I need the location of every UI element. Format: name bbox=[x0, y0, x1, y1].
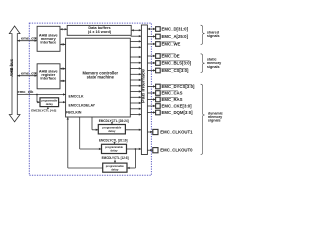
brace dynamic memory signals bbox=[201, 84, 205, 154]
wire emc_clk / EMCCLK bbox=[17, 94, 65, 96]
EMC module dashed boundary bbox=[29, 23, 151, 175]
svg-text:delay: delay bbox=[108, 129, 116, 133]
wire state machine to delay 1 bbox=[91, 117, 93, 130]
svg-text:EMCCLK: EMCCLK bbox=[69, 94, 84, 98]
wire register interface to state machine 1 bbox=[60, 68, 66, 70]
svg-text:EMCDLYCTL [4:0]: EMCDLYCTL [4:0] bbox=[31, 109, 56, 113]
wire pad interface to EMC_CLKOUT1 pad bbox=[147, 131, 152, 133]
svg-text:delay: delay bbox=[46, 102, 54, 106]
pad and signal EMC_OE bbox=[147, 55, 155, 57]
svg-text:state machine: state machine bbox=[87, 74, 115, 79]
pad and signal EMC_WE bbox=[147, 43, 155, 45]
svg-text:signals: signals bbox=[207, 34, 220, 38]
pad and signal EMC_RAS bbox=[147, 99, 155, 101]
svg-text:EMC_DYCS[3:0]: EMC_DYCS[3:0] bbox=[162, 84, 196, 89]
svg-text:EMC_DQM[3:0]: EMC_DQM[3:0] bbox=[162, 110, 194, 115]
svg-text:AHB bus: AHB bus bbox=[9, 58, 14, 76]
pad and signal EMC_CKE[3:0] bbox=[147, 105, 155, 107]
svg-text:EMC_CS[3:0]: EMC_CS[3:0] bbox=[162, 68, 190, 73]
svg-text:interface: interface bbox=[40, 76, 56, 80]
svg-text:signals: signals bbox=[208, 119, 221, 123]
svg-text:EMC_CAS: EMC_CAS bbox=[162, 91, 183, 96]
svg-text:Pad interface: Pad interface bbox=[141, 68, 146, 103]
wire emc_clk to register interface bbox=[17, 75, 37, 77]
junction on emc_clk bbox=[36, 94, 38, 96]
svg-text:EMC_CKE[3:0]: EMC_CKE[3:0] bbox=[162, 104, 193, 109]
block: pad interface bbox=[141, 25, 147, 155]
pad and signal EMC_A[25:0] bbox=[147, 36, 155, 38]
svg-text:EMC_A[25:0]: EMC_A[25:0] bbox=[162, 34, 189, 39]
pad and signal EMC_BLS[3:0] bbox=[147, 62, 155, 64]
block: programmable delay 2 (CLKOUT0DLY) bbox=[102, 144, 127, 153]
pad EMC_CLKOUT0 bbox=[153, 148, 158, 153]
svg-text:EMC_CLKOUT0: EMC_CLKOUT0 bbox=[160, 148, 193, 153]
svg-text:EMCDLYCTL [20:16]: EMCDLYCTL [20:16] bbox=[99, 139, 128, 143]
wire data buffers to pad interface bbox=[131, 29, 141, 31]
wire delay 2 to pad interface bbox=[127, 148, 142, 150]
control arrow into delay 1 bbox=[111, 123, 113, 124]
svg-text:EMC_RAS: EMC_RAS bbox=[162, 97, 183, 102]
wire pad interface to EMC_CLKOUT0 pad bbox=[147, 149, 152, 151]
pad and signal EMC_DYCS[3:0] bbox=[147, 86, 155, 88]
wire to programmable delay 0 bbox=[36, 95, 38, 103]
pad and signal EMC_DQM[3:0] bbox=[147, 112, 155, 114]
AHB bus (vertical double-headed hollow arrow) bbox=[9, 26, 20, 122]
wire EMCCLKDELAY bbox=[59, 101, 66, 103]
wire FBCLKIN feedback bbox=[68, 167, 103, 169]
pad and signal EMC_D[31:0] bbox=[147, 28, 155, 30]
svg-text:interface: interface bbox=[40, 40, 56, 44]
wire delay 1 to pad interface bbox=[125, 129, 141, 131]
junction on EMC_CLKOUT0 net bbox=[135, 148, 137, 150]
block: data buffers bbox=[67, 25, 131, 35]
svg-text:EMC_WE: EMC_WE bbox=[162, 42, 181, 47]
block: AHB slave memory interface bbox=[37, 26, 60, 51]
svg-text:EMC_BLS[3:0]: EMC_BLS[3:0] bbox=[162, 61, 192, 66]
wire CLKOUT0 tap to delay 3 bbox=[134, 149, 136, 168]
svg-text:EMC_D[31:0]: EMC_D[31:0] bbox=[162, 27, 189, 32]
wires state machine to pad interface bbox=[130, 40, 141, 42]
svg-text:delay: delay bbox=[111, 167, 119, 171]
svg-text:(4 x 16 word): (4 x 16 word) bbox=[88, 30, 112, 34]
control arrow into delay 2 bbox=[114, 142, 116, 143]
wire memory interface to data buffers bbox=[60, 28, 67, 30]
brace shared signals bbox=[201, 25, 205, 44]
block: programmable delay 3 (FBCLKDLY) bbox=[103, 163, 127, 172]
svg-text:EMCDLYCTL [12:8]: EMCDLYCTL [12:8] bbox=[102, 156, 129, 160]
control arrow into delay 0 bbox=[47, 107, 49, 110]
brace static memory signals bbox=[201, 54, 205, 73]
svg-text:emc_clk: emc_clk bbox=[21, 70, 38, 75]
svg-text:EMCDLYCTL [28:24]: EMCDLYCTL [28:24] bbox=[99, 119, 129, 123]
svg-text:emc_clk: emc_clk bbox=[18, 89, 35, 94]
svg-text:EMC_OE: EMC_OE bbox=[162, 54, 180, 59]
wire memory interface to state machine bbox=[60, 43, 66, 45]
pad EMC_CLKOUT1 bbox=[153, 129, 158, 134]
svg-text:signals: signals bbox=[207, 65, 220, 69]
svg-text:FBCLKIN: FBCLKIN bbox=[66, 110, 82, 114]
svg-text:emc_clk: emc_clk bbox=[21, 35, 38, 40]
control arrow into delay 3 bbox=[114, 160, 116, 162]
wire emc_clk to memory interface bbox=[17, 40, 37, 42]
wire state machine to delay 2 bbox=[79, 117, 81, 149]
block: AHB slave register interface bbox=[37, 64, 60, 89]
pad and signal EMC_CS[3:0] bbox=[147, 70, 155, 72]
svg-text:delay: delay bbox=[110, 149, 118, 153]
wire data buffers to pad interface 2 bbox=[131, 35, 142, 37]
wire register interface to state machine 2 bbox=[60, 80, 66, 82]
block: memory controller state machine bbox=[66, 38, 131, 117]
svg-text:EMCCLKDELAY: EMCCLKDELAY bbox=[69, 104, 96, 108]
svg-text:EMC_CLKOUT1: EMC_CLKOUT1 bbox=[160, 130, 193, 135]
pad and signal EMC_CAS bbox=[147, 92, 155, 94]
block: programmable delay 1 (CLKOUT1DLY) bbox=[98, 125, 125, 134]
block: programmable delay 0 (CMDDLY) bbox=[40, 98, 59, 107]
